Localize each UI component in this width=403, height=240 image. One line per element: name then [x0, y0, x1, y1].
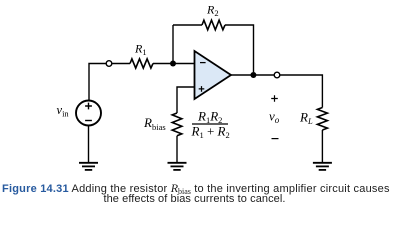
svg-text:vo: vo: [269, 109, 280, 126]
node: open output terminal circle: [274, 72, 280, 78]
node: output junction dot: [250, 72, 256, 78]
caption line 1: [2, 181, 390, 196]
label R2: [206, 3, 219, 19]
ground (v_in): [79, 163, 98, 170]
wire: output terminal to RL branch: [280, 75, 323, 108]
resistor Rbias (vertical zigzag): [172, 113, 182, 136]
resistor R2 (zigzag): [202, 20, 225, 30]
label R1R2/(R1+R2) fraction numerator: [197, 109, 222, 126]
node: open input terminal circle: [106, 61, 112, 67]
label - (v_o minus): [272, 138, 279, 140]
label R1: [134, 42, 147, 58]
resistor R1 (zigzag): [130, 59, 153, 68]
ground (Rbias): [168, 163, 187, 170]
op-amp minus input marker: [200, 62, 206, 64]
source plus marker: [85, 103, 92, 110]
svg-text:RL: RL: [299, 110, 313, 127]
source v_in (circle): [76, 101, 101, 126]
label + (v_o plus): [271, 95, 278, 102]
wire: input terminal to R1: [112, 63, 130, 65]
svg-text:Rbias: Rbias: [143, 115, 166, 132]
label RL: [299, 110, 313, 127]
node: summing junction dot: [170, 61, 176, 67]
op-amp U1 (triangle): [195, 51, 232, 99]
wire: op-amp output to load branch: [231, 74, 274, 76]
label v_o: [269, 109, 280, 126]
label Rbias: [143, 115, 166, 132]
wire: v_in top lead up and right to input terminal: [89, 64, 106, 101]
svg-text:R1: R1: [134, 42, 147, 58]
wire: non-inverting input to R_bias branch: [177, 87, 195, 113]
op-amp plus input marker: [199, 86, 205, 92]
resistor RL (vertical zigzag): [317, 108, 327, 131]
label fraction denominator R1 + R2: [191, 124, 230, 141]
caption line 2: [103, 193, 285, 205]
svg-text:R2: R2: [206, 3, 219, 19]
wire: R1 to inverting input (through summing node): [153, 63, 195, 65]
label v_in: [57, 103, 70, 119]
wire: feedback left vertical: [172, 25, 174, 64]
fraction bar: [192, 123, 228, 125]
svg-text:R1 + R2: R1 + R2: [191, 124, 230, 141]
wire: v_in bottom lead to ground: [88, 126, 90, 163]
source minus marker: [85, 120, 92, 122]
wire: RL to ground: [321, 130, 323, 162]
svg-text:vin: vin: [57, 103, 70, 119]
wire: feedback top right segment and right vertical down to output: [225, 25, 254, 72]
wire: Rbias to ground: [176, 136, 178, 163]
wire: feedback top left segment: [173, 24, 202, 26]
ground (RL): [313, 163, 332, 170]
